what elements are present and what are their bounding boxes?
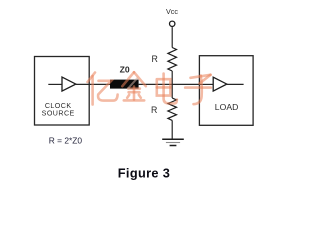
svg-text:R: R	[152, 54, 158, 64]
wire R2 to ground	[171, 120, 173, 139]
ground symbol bar 1	[162, 138, 184, 140]
wire R1 through junction to R2	[171, 71, 173, 98]
clock source buffer triangle U1	[62, 77, 76, 91]
wire Vcc to resistor R1	[171, 27, 173, 47]
svg-text:R = 2*Z0: R = 2*Z0	[49, 135, 83, 145]
resistor R2 zigzag	[168, 98, 177, 120]
clock source input stub wire	[48, 83, 62, 85]
svg-text:SOURCE: SOURCE	[42, 109, 75, 117]
watermark highlight streak over Z0 bar	[127, 78, 137, 89]
load buffer triangle U2	[213, 77, 227, 91]
ground symbol bar 2	[166, 142, 180, 144]
svg-text:Figure 3: Figure 3	[118, 165, 170, 180]
svg-text:Z0: Z0	[120, 65, 130, 75]
resistor R1 zigzag	[168, 48, 177, 72]
transmission line Z0 (thick black bar)	[110, 80, 139, 89]
wire into load buffer	[199, 83, 213, 85]
ground symbol bar 3	[170, 145, 177, 147]
svg-text:LOAD: LOAD	[215, 102, 239, 112]
Vcc terminal circle	[170, 21, 175, 26]
wire clock source output to transmission line	[76, 83, 111, 85]
load output stub wire	[227, 83, 244, 85]
svg-text:R: R	[151, 105, 157, 115]
watermark character yi (亿)	[88, 73, 118, 105]
clock source box	[35, 57, 90, 126]
svg-text:Vcc: Vcc	[166, 7, 178, 16]
watermark character dian (电)	[157, 74, 177, 104]
load box	[199, 56, 253, 126]
watermark character jin (金)	[122, 72, 146, 100]
wire transmission line to termination junction and load	[139, 83, 200, 85]
watermark character zi (子)	[185, 75, 211, 104]
